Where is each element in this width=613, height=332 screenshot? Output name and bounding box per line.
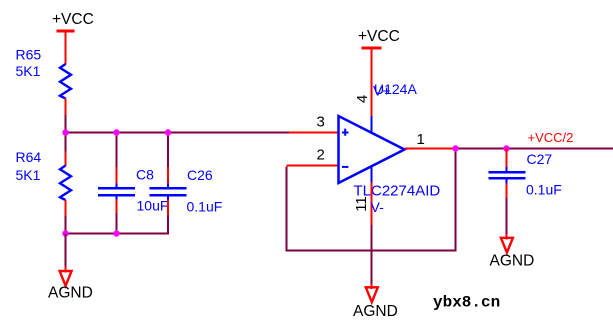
wire node to R64 (65, 132, 67, 152)
junction node D (62, 230, 68, 236)
wire feedback loop (287, 149, 456, 251)
svg-text:1: 1 (417, 131, 425, 148)
wire C27 to AGND (506, 198, 508, 235)
wire R64 bottom to rail (65, 216, 67, 234)
resistor R64 pin top (65, 152, 67, 167)
svg-text:4: 4 (354, 95, 371, 103)
svg-text:C26: C26 (187, 167, 213, 183)
resistor R64 (60, 166, 71, 201)
svg-text:5K1: 5K1 (16, 63, 41, 79)
capacitor C8 (98, 187, 135, 196)
wire pin 11 to AGND (371, 225, 373, 284)
resistor R64 pin bottom (65, 200, 67, 216)
wire node to C8 top (116, 132, 118, 167)
ground AGND (op-amp) (366, 287, 378, 302)
power symbol +VCC (left) (57, 31, 75, 65)
svg-text:+VCC: +VCC (358, 28, 400, 45)
junction node F (output) (452, 145, 458, 151)
svg-text:R64: R64 (16, 149, 42, 165)
svg-text:3: 3 (317, 114, 325, 131)
junction node G (C27 tap) (503, 145, 509, 151)
capacitor C26 (150, 187, 187, 196)
capacitor C8 pin bottom (116, 196, 118, 199)
wire C26 bottom to rail (167, 215, 169, 234)
svg-text:AGND: AGND (353, 303, 398, 320)
capacitor C27 (489, 171, 526, 180)
wire node to C26 top (167, 132, 169, 167)
op-amp U1 pin 11 (V-) (371, 166, 373, 183)
wire C8 bottom to rail (116, 213, 118, 234)
svg-text:R65: R65 (16, 47, 42, 63)
resistor R65 pin bottom (65, 99, 67, 116)
power symbol +VCC (op-amp) (362, 47, 382, 50)
svg-text:11: 11 (353, 196, 370, 212)
svg-text:5K1: 5K1 (16, 167, 41, 183)
junction node A (62, 129, 68, 135)
op-amp U1 triangle (339, 116, 405, 183)
svg-text:0.1uF: 0.1uF (526, 182, 562, 198)
ground AGND (C27) (501, 238, 513, 253)
wire rail to AGND (65, 234, 67, 268)
junction node C (165, 129, 171, 135)
wire R65 to node row (65, 115, 67, 132)
capacitor C8 pin top (116, 167, 118, 184)
op-amp U1 pin 2 stub (287, 165, 339, 167)
svg-text:+VCC: +VCC (52, 11, 94, 28)
junction node E (113, 230, 119, 236)
op-amp minus mark (342, 166, 348, 168)
svg-text:V-: V- (371, 199, 385, 215)
junction node B (113, 129, 119, 135)
svg-text:V+: V+ (373, 83, 391, 99)
svg-text:C27: C27 (527, 151, 553, 167)
svg-text:10uF: 10uF (137, 198, 169, 214)
svg-text:2: 2 (317, 147, 325, 164)
svg-text:AGND: AGND (490, 253, 535, 270)
op-amp U1 pin 4 (V+) (371, 49, 373, 116)
capacitor C27 pin bottom (506, 180, 508, 184)
svg-text:C8: C8 (136, 167, 154, 183)
wire main horizontal to op-amp (65, 132, 290, 134)
op-amp U1 pin 3 stub (289, 132, 339, 134)
svg-text:AGND: AGND (48, 285, 93, 302)
capacitor C26 pin top (167, 167, 169, 184)
svg-text:+VCC/2: +VCC/2 (528, 130, 574, 145)
svg-text:ybx8.cn: ybx8.cn (433, 294, 500, 312)
capacitor C26 pin bottom (167, 196, 169, 199)
ground AGND (left) (60, 271, 72, 286)
resistor R65 (60, 64, 71, 99)
wire output net (456, 148, 613, 150)
op-amp plus mark (342, 129, 349, 136)
op-amp U1 pin 1 stub (405, 148, 456, 150)
svg-text:0.1uF: 0.1uF (187, 199, 223, 215)
capacitor C27 pin top (506, 149, 508, 168)
wire bottom rail (65, 233, 170, 235)
